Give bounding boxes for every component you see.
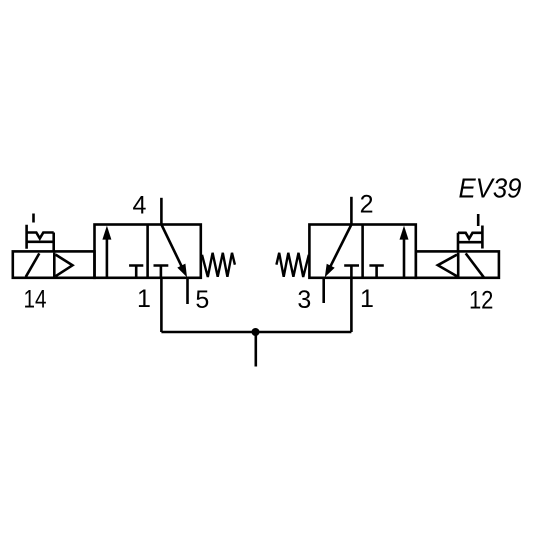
svg-text:2: 2 (360, 191, 374, 219)
port 5 line (186, 278, 189, 304)
svg-text:1: 1 (360, 285, 374, 313)
blocked port 1 T (right valve left square) (344, 266, 359, 278)
svg-text:1: 1 (137, 285, 151, 313)
svg-text:14: 14 (24, 286, 47, 314)
valve V2 body (309, 225, 415, 278)
svg-text:12: 12 (469, 287, 494, 315)
spring left (202, 253, 235, 277)
svg-text:EV39: EV39 (459, 172, 522, 203)
manual override left (25, 214, 53, 252)
arrow 1 to 4 (left valve) (102, 226, 111, 278)
solenoid Y12 box (416, 251, 499, 277)
junction node (252, 328, 260, 336)
solenoid Y14 box (13, 251, 95, 277)
pilot triangle left (54, 253, 72, 277)
spring right (276, 253, 308, 277)
port 1 line right (350, 278, 353, 332)
svg-text:4: 4 (133, 192, 147, 220)
port 2 line (350, 197, 353, 225)
manual override right (458, 214, 483, 252)
blocked port 1 T (right square) (154, 266, 169, 278)
port 4 line (160, 198, 163, 225)
wire junction bus (161, 331, 351, 334)
pilot triangle right (438, 253, 458, 277)
svg-text:3: 3 (297, 286, 311, 314)
port 1 line left (160, 278, 163, 332)
blocked port T (right valve right square) (369, 266, 383, 278)
port 3 line (322, 278, 325, 303)
arrow 1 to 2 (right valve) (400, 226, 409, 278)
svg-text:5: 5 (195, 286, 209, 314)
arrow 4 to 5 (diagonal) (161, 225, 187, 278)
blocked port T (left square) (129, 266, 143, 278)
wire stem below junction (255, 332, 258, 367)
valve V1 body (95, 225, 201, 278)
arrow 2 to 3 (diagonal) (325, 225, 352, 278)
